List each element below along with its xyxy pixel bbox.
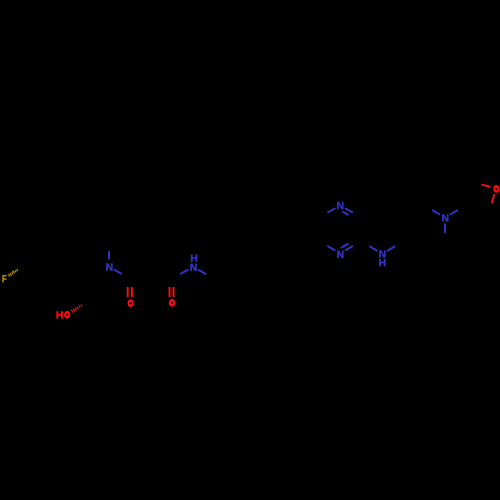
wire chain N2-G1-G2-G3-G4-C5 (propyl linker) — [206, 253, 299, 279]
bond N1-Ca1 blue half — [114, 269, 122, 274]
bond N1-U1 black half — [108, 243, 110, 251]
quinoxaline benzo ring (carbon bonds) — [278, 205, 320, 253]
benzo inner double lines — [282, 210, 315, 249]
bond N5-C4p black half — [395, 241, 403, 246]
piperidine ring black bonds — [403, 206, 445, 254]
bond C=O1 black halves — [128, 279, 132, 288]
bond O3-Ca red half (oxetane) — [492, 194, 494, 203]
oxetane carbon bonds — [466, 182, 490, 212]
atom O4 label O (hydroxyl HO) — [64, 311, 70, 318]
pyrazine ring black parts — [319, 208, 335, 217]
atom N1 label (amide N) — [106, 263, 112, 270]
bond Nq1-C8a blue half — [327, 208, 335, 213]
bond C=O2 black halves — [170, 279, 174, 288]
atom H on N5 — [379, 259, 385, 266]
bond C3q-N5 black half — [361, 241, 369, 246]
bond Ca2-N2 blue half — [180, 270, 189, 275]
hash mark green glint on A1-F bond — [11, 270, 14, 273]
atom H on N2 — [191, 255, 197, 262]
bond N1p-C2p blue half — [432, 210, 440, 215]
bond N2-G1 blue half — [198, 270, 206, 275]
bond Nq1=C2q blue half inner — [342, 211, 348, 215]
atom Nq1 label (quinoxaline N) — [337, 202, 343, 209]
wire chain A2-V-X (CH2 links, carbon bonds) — [46, 279, 88, 303]
bond Nq4-C4a blue half — [327, 246, 335, 251]
bond C2q-C3q — [360, 217, 362, 241]
bond C2p-N1p black half — [424, 206, 432, 211]
bond Ca1=O1 red halves (double bond) — [128, 287, 132, 297]
bond Nq1=C2q blue half main — [345, 208, 353, 213]
bond N1p-C6p blue half (stub below) — [444, 223, 446, 233]
bond N1-U1 blue half (stub above N1) — [108, 251, 110, 260]
bond Ca2-N2 black half — [171, 274, 180, 279]
ring A (fluoro-ring, carbon bonds) — [25, 231, 67, 279]
bond Nq4-C4a black half — [319, 241, 327, 246]
bond N1p-C3ox blue half — [450, 210, 458, 215]
atom O4 label H (hydroxyl HO) — [57, 311, 63, 318]
hashed bond A1-F gold half (stereo hash marks) — [8, 269, 17, 276]
bond Ca1-Cmid and Cmid-Ca2 (malonamide CH2) — [130, 267, 172, 279]
bond N1-Ca1 black half — [122, 274, 130, 279]
bond N5-C4p blue half — [387, 246, 395, 251]
atom O2 label (carbonyl) — [169, 299, 175, 306]
bond O3-Cb red half (oxetane) — [481, 184, 490, 187]
atom O3 label (oxetane O) — [493, 185, 499, 192]
atom N2 label (amide NH) — [190, 264, 196, 271]
bond Cb-O3 black half — [472, 182, 481, 185]
bond Nq4=C3q blue half main — [345, 246, 353, 251]
atom N5 label (ring NH) — [379, 250, 385, 257]
bond Nq4=C3q black halves — [348, 240, 361, 246]
atom O1 label (carbonyl) — [128, 300, 134, 307]
hashed bond X-OH red half (stereo hash marks) — [71, 305, 82, 313]
middle ring black bonds C2q-CH2b-C3p — [361, 205, 403, 217]
bond Ca-O3 black half — [489, 203, 491, 212]
bond Nq1=C2q black halves — [348, 213, 361, 219]
atom Nq4 label (quinoxaline N) — [337, 251, 343, 258]
bond N5-C3q blue half — [369, 246, 377, 251]
bond N1p-C3ox black half — [458, 206, 466, 211]
atom N1p label (piperidine N) — [442, 214, 448, 221]
wire chain U1-U2-A4 (carbon bonds) — [66, 231, 109, 243]
atom F1 label — [2, 275, 6, 282]
bond Ca2=O2 red halves (double bond) — [170, 287, 174, 297]
bond Nq4=C3q blue half inner — [341, 244, 349, 248]
bond C6p-N1p black half — [444, 233, 446, 241]
